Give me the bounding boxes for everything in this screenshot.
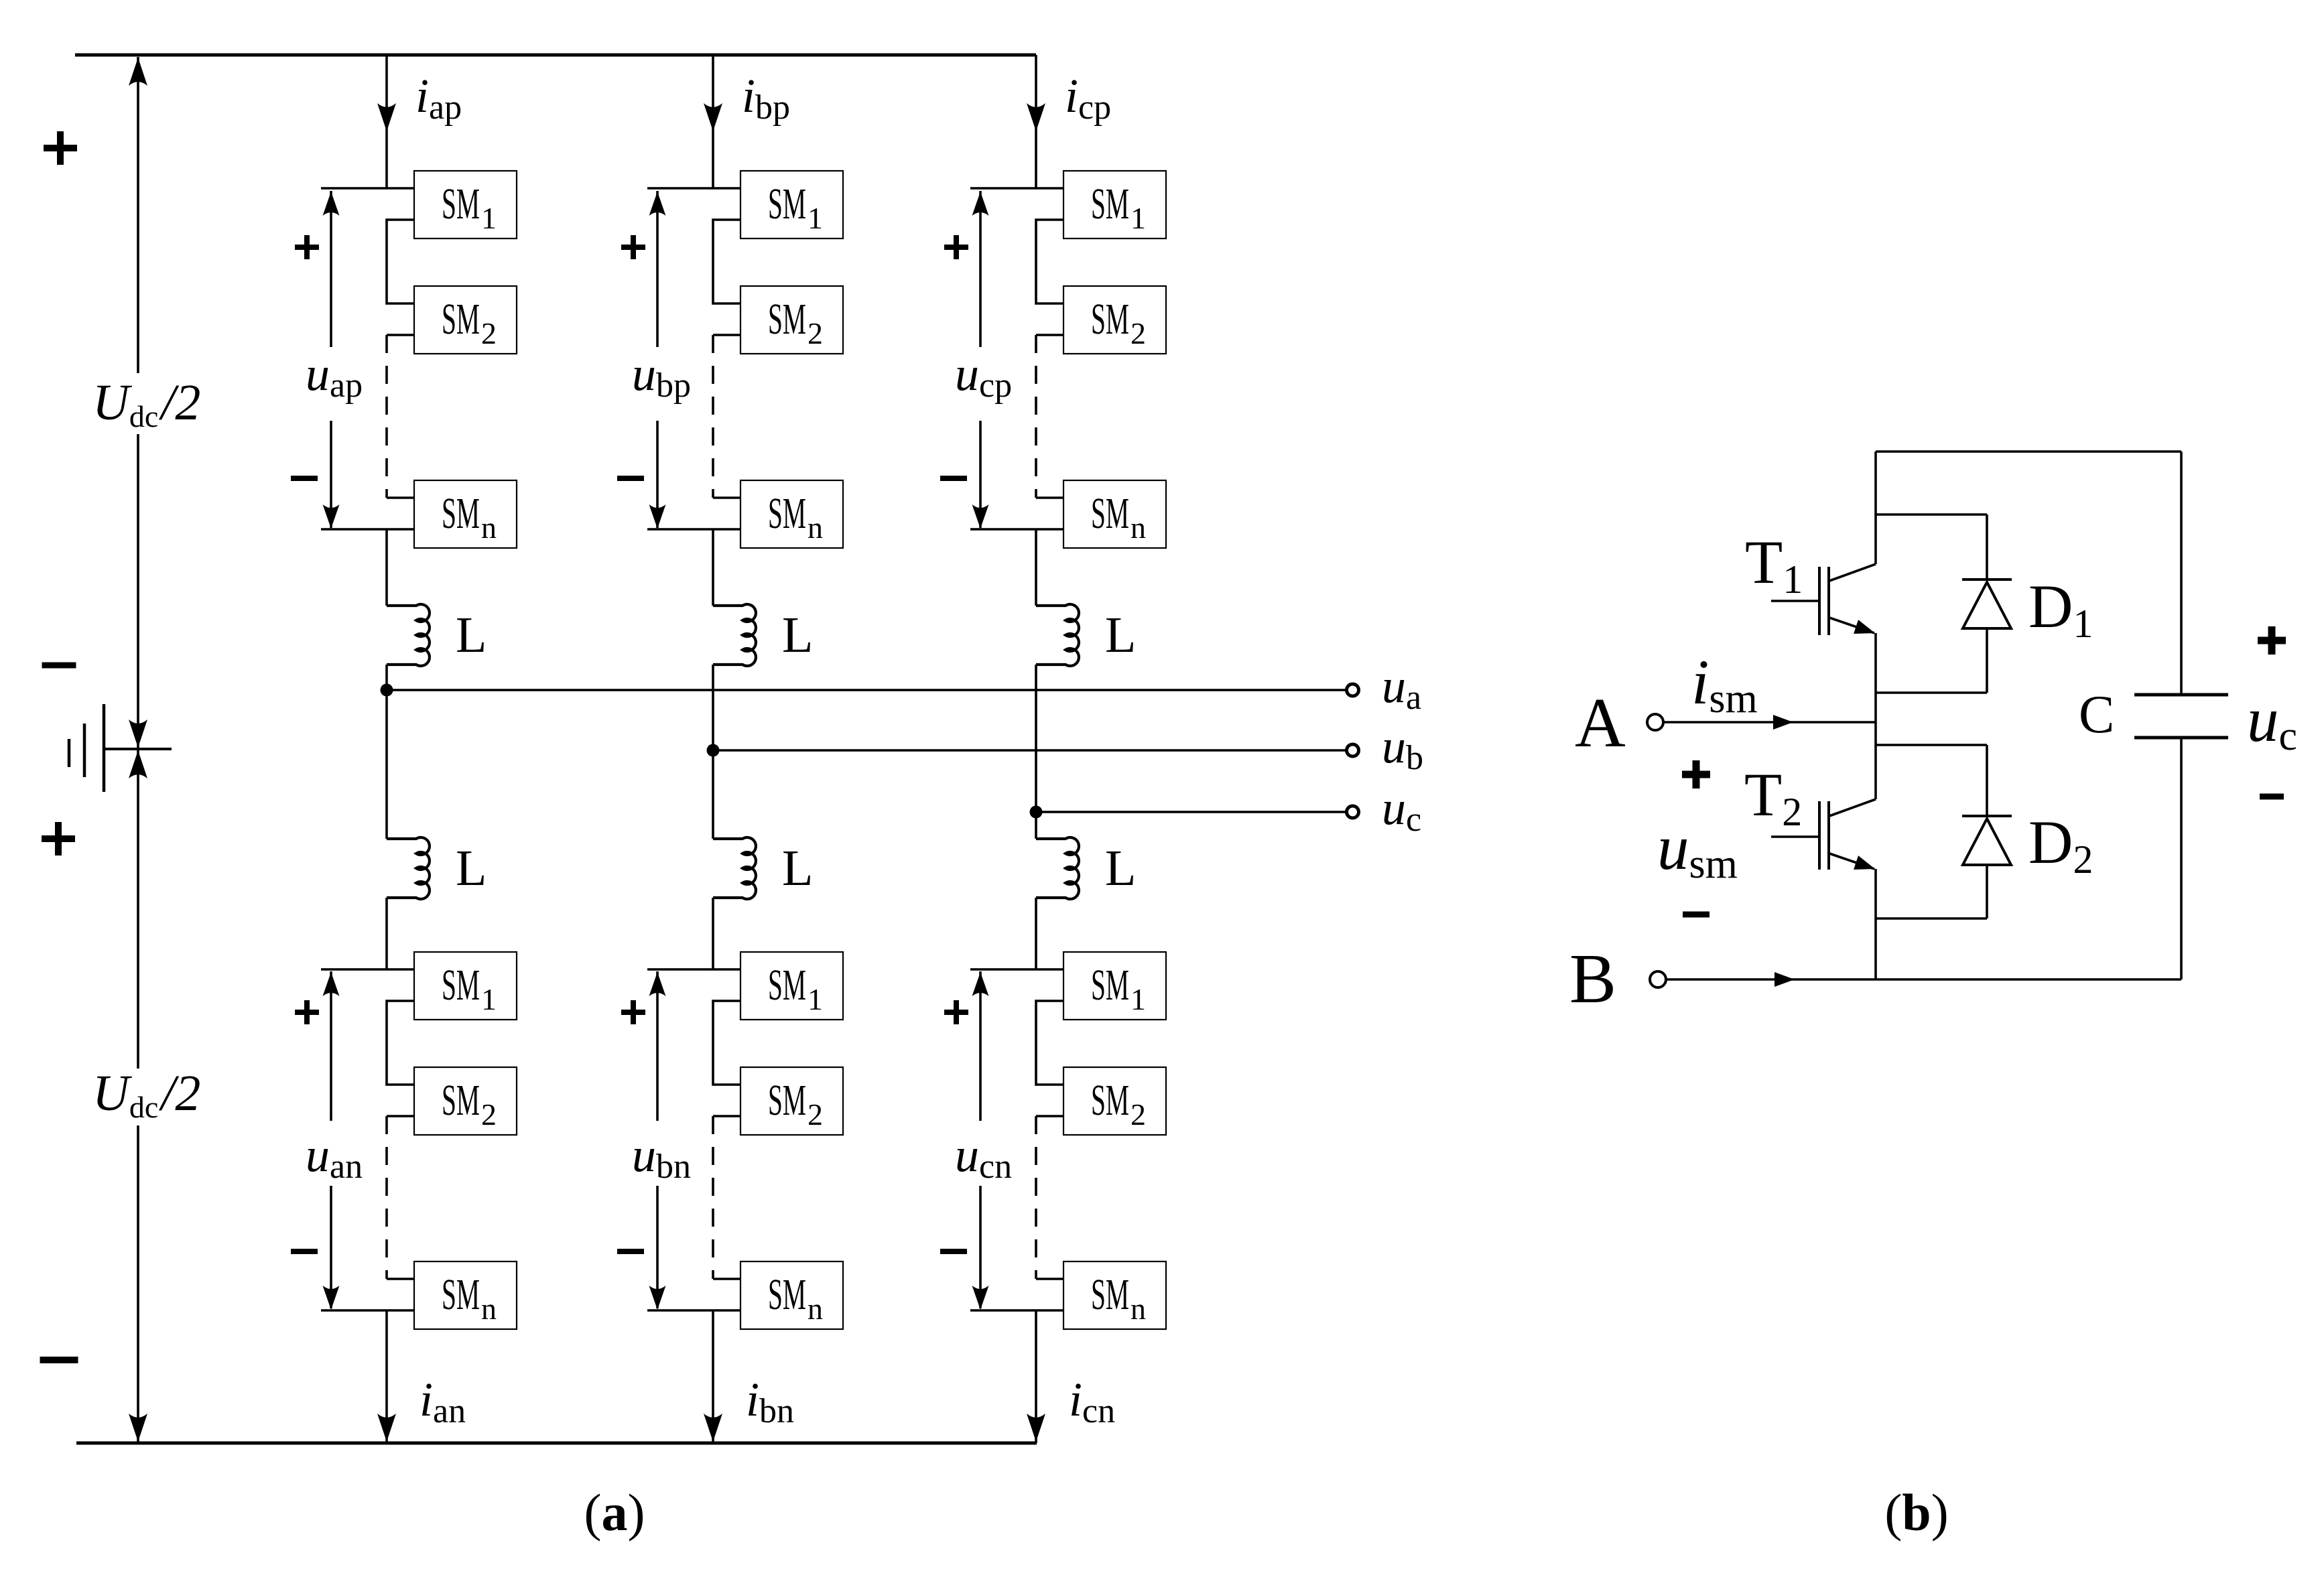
wire inductor to node b bbox=[712, 665, 714, 839]
svg-text:1: 1 bbox=[808, 982, 823, 1016]
upper arm inductor L b bbox=[713, 604, 756, 666]
wire SM1-SM2 a bbox=[387, 220, 414, 303]
svg-text:SM: SM bbox=[1091, 489, 1129, 538]
arm voltage arrow u_ap bbox=[330, 191, 332, 347]
svg-text:1: 1 bbox=[1131, 982, 1146, 1016]
arm voltage arrow u_an bbox=[330, 971, 332, 1121]
arm current arrow i_bp bbox=[704, 103, 722, 131]
upper arm terminal line top b bbox=[647, 187, 740, 190]
svg-text:2: 2 bbox=[1131, 316, 1146, 350]
arm current arrow i_cp bbox=[1027, 103, 1045, 131]
dashed wire upper arm c bbox=[1035, 335, 1037, 498]
wire SM2-dashed lower b bbox=[713, 1115, 740, 1117]
D1 bottom branch bbox=[1876, 691, 1987, 694]
svg-text:SM: SM bbox=[442, 489, 480, 538]
output terminal circle u_c bbox=[1347, 806, 1359, 818]
diode D2 bbox=[1986, 745, 1988, 816]
wire A to midpoint bbox=[1664, 721, 1876, 724]
wire SM1-SM2 lower c bbox=[1036, 1001, 1063, 1085]
right rail upper bbox=[2180, 452, 2183, 695]
arm voltage arrow u_cn bbox=[979, 971, 982, 1121]
wire inductor to SM1 lower a bbox=[385, 898, 388, 969]
bottom DC bus bbox=[76, 1442, 1037, 1445]
wire inductor to SM1 lower b bbox=[712, 898, 714, 969]
svg-text:2: 2 bbox=[1131, 1097, 1146, 1132]
wire dashed-SMn lower b bbox=[713, 1278, 740, 1280]
submodule detail: top wire bbox=[1876, 450, 2181, 453]
wire inductor to node a bbox=[385, 665, 388, 839]
phase b upper arm wire bbox=[712, 55, 714, 188]
left rail upper bbox=[1874, 452, 1877, 564]
svg-text:2: 2 bbox=[808, 1097, 823, 1132]
dashed wire upper arm a bbox=[385, 335, 388, 498]
right rail lower bbox=[2180, 738, 2183, 979]
T1 collector branch bbox=[1876, 513, 1987, 516]
wire inductor to node c bbox=[1035, 665, 1037, 839]
svg-text:n: n bbox=[808, 1292, 823, 1326]
submodule SMn upper c bbox=[1063, 480, 1166, 548]
minus of u_cn bbox=[940, 1249, 967, 1254]
submodule SM1 upper a bbox=[414, 171, 517, 238]
submodule SM2 upper b bbox=[740, 286, 843, 354]
submodule SM1 upper c bbox=[1063, 171, 1166, 238]
wire SMn to upper inductor a bbox=[385, 529, 388, 606]
wire SM2-dashed c bbox=[1036, 334, 1063, 336]
igbt T2 bbox=[1829, 799, 1876, 816]
plus of u_bn bbox=[621, 1010, 645, 1015]
submodule SM2 lower c bbox=[1063, 1067, 1166, 1135]
dashed wire lower arm c bbox=[1035, 1116, 1037, 1279]
wire SM2-dashed a bbox=[387, 334, 414, 336]
plus of u_c bbox=[2258, 637, 2286, 644]
wire dashed-SMn b bbox=[713, 496, 740, 499]
svg-text:SM: SM bbox=[1091, 961, 1129, 1010]
wire SMn to bottom bus b bbox=[712, 1310, 714, 1443]
svg-text:1: 1 bbox=[1131, 201, 1146, 235]
svg-text:L: L bbox=[456, 607, 487, 663]
igbt T1 bbox=[1829, 564, 1876, 581]
wire dashed-SMn c bbox=[1036, 496, 1063, 499]
plus of u_cn bbox=[944, 1010, 968, 1015]
dashed wire upper arm b bbox=[712, 335, 714, 498]
svg-text:L: L bbox=[782, 840, 813, 896]
svg-text:SM: SM bbox=[442, 1076, 480, 1125]
svg-text:SM: SM bbox=[442, 1270, 480, 1319]
lower arm terminal line top a bbox=[321, 968, 414, 971]
lower arm terminal line top b bbox=[647, 968, 740, 971]
minus of u_bn bbox=[617, 1249, 644, 1254]
wire SMn to bottom bus a bbox=[385, 1310, 388, 1443]
plus sign upper left bbox=[44, 145, 77, 151]
submodule SMn upper b bbox=[740, 480, 843, 548]
submodule SMn lower a bbox=[414, 1261, 517, 1329]
output terminal circle u_b bbox=[1347, 744, 1359, 756]
upper arm terminal line bottom b bbox=[647, 528, 740, 531]
upper arm terminal line bottom a bbox=[321, 528, 414, 531]
svg-text:2: 2 bbox=[808, 316, 823, 350]
lower arm inductor L c bbox=[1036, 837, 1079, 899]
upper arm inductor L a bbox=[387, 604, 430, 666]
svg-text:SM: SM bbox=[768, 295, 806, 344]
rail T1 emitter to T2 collector bbox=[1874, 633, 1877, 799]
svg-text:C: C bbox=[2079, 685, 2114, 744]
wire SM2-dashed lower a bbox=[387, 1115, 414, 1117]
arm current arrow i_bn bbox=[704, 1414, 722, 1442]
phase c upper arm wire bbox=[1035, 55, 1037, 188]
arm current arrow i_cn bbox=[1027, 1414, 1045, 1442]
svg-text:n: n bbox=[1131, 510, 1146, 545]
upper arm terminal line bottom c bbox=[970, 528, 1063, 531]
submodule SM1 lower c bbox=[1063, 952, 1166, 1020]
submodule SM1 lower b bbox=[740, 952, 843, 1020]
upper arm terminal line top c bbox=[970, 187, 1063, 190]
svg-text:1: 1 bbox=[481, 982, 497, 1016]
svg-text:SM: SM bbox=[768, 489, 806, 538]
wire SMn to bottom bus c bbox=[1035, 1310, 1037, 1443]
output line u_c bbox=[1036, 811, 1346, 813]
submodule SM2 upper a bbox=[414, 286, 517, 354]
minus sign bottom left bbox=[40, 1357, 78, 1363]
wire SM1-SM2 lower b bbox=[713, 1001, 740, 1085]
arm current arrow i_ap bbox=[377, 103, 396, 131]
wire SM2-dashed b bbox=[713, 334, 740, 336]
capacitor C bbox=[2134, 693, 2228, 697]
svg-text:SM: SM bbox=[1091, 295, 1129, 344]
svg-text:A: A bbox=[1575, 683, 1626, 762]
plus of u_bp bbox=[621, 245, 645, 250]
svg-text:n: n bbox=[481, 510, 497, 545]
svg-text:SM: SM bbox=[1091, 1270, 1129, 1319]
submodule SM2 upper c bbox=[1063, 286, 1166, 354]
Udc/2 measurement arrow lower bbox=[137, 750, 139, 1069]
top DC bus bbox=[75, 54, 1036, 57]
arm voltage arrow u_bn bbox=[656, 971, 659, 1121]
ground at DC midpoint bbox=[104, 748, 172, 750]
wire SMn to upper inductor b bbox=[712, 529, 714, 606]
minus of u_sm bbox=[1683, 912, 1709, 918]
phase a upper arm wire bbox=[385, 55, 388, 188]
output line u_a bbox=[387, 689, 1346, 691]
lower arm terminal line bottom c bbox=[970, 1309, 1063, 1312]
node a bbox=[381, 684, 393, 697]
terminal B circle bbox=[1650, 971, 1666, 987]
submodule SM1 upper b bbox=[740, 171, 843, 238]
arm current arrow i_an bbox=[377, 1414, 396, 1442]
wire SM1-SM2 c bbox=[1036, 220, 1063, 303]
submodule SMn lower b bbox=[740, 1261, 843, 1329]
svg-text:SM: SM bbox=[768, 961, 806, 1010]
svg-text:L: L bbox=[1105, 607, 1136, 663]
plus sign mid left lower bbox=[42, 835, 75, 842]
dashed wire lower arm b bbox=[712, 1116, 714, 1279]
svg-text:B: B bbox=[1569, 939, 1616, 1018]
output terminal circle u_a bbox=[1347, 684, 1359, 696]
svg-text:L: L bbox=[1105, 840, 1136, 896]
arm voltage arrow u_bp bbox=[656, 191, 659, 347]
wire SM2-dashed lower c bbox=[1036, 1115, 1063, 1117]
svg-text:SM: SM bbox=[768, 1076, 806, 1125]
svg-text:(b): (b) bbox=[1884, 1483, 1948, 1542]
minus of u_ap bbox=[291, 476, 318, 481]
node c bbox=[1030, 806, 1043, 819]
wire dashed-SMn a bbox=[387, 496, 414, 499]
svg-text:SM: SM bbox=[1091, 1076, 1129, 1125]
upper arm terminal line top a bbox=[321, 187, 414, 190]
D2 bottom branch bbox=[1876, 917, 1987, 920]
lower arm terminal line top c bbox=[970, 968, 1063, 971]
minus of u_an bbox=[291, 1249, 318, 1254]
submodule SM2 lower b bbox=[740, 1067, 843, 1135]
rail T2 emitter to bottom bbox=[1874, 869, 1877, 979]
svg-text:SM: SM bbox=[442, 961, 480, 1010]
bottom wire B to capacitor bbox=[1667, 978, 2181, 981]
plus of u_cp bbox=[944, 245, 968, 250]
svg-text:SM: SM bbox=[442, 295, 480, 344]
svg-text:2: 2 bbox=[481, 316, 497, 350]
minus sign mid left upper bbox=[42, 663, 76, 669]
svg-text:2: 2 bbox=[481, 1097, 497, 1132]
svg-text:1: 1 bbox=[808, 201, 823, 235]
plus of u_an bbox=[295, 1010, 319, 1015]
wire SM1-SM2 lower a bbox=[387, 1001, 414, 1085]
svg-text:L: L bbox=[456, 840, 487, 896]
output line u_b bbox=[713, 749, 1346, 752]
lower arm inductor L b bbox=[713, 837, 756, 899]
svg-text:L: L bbox=[782, 607, 813, 663]
wire SMn to upper inductor c bbox=[1035, 529, 1037, 606]
T2 collector branch bbox=[1876, 744, 1987, 746]
wire inductor to SM1 lower c bbox=[1035, 898, 1037, 969]
svg-text:n: n bbox=[481, 1292, 497, 1326]
wire dashed-SMn lower a bbox=[387, 1278, 414, 1280]
wire SM1-SM2 b bbox=[713, 220, 740, 303]
dashed wire lower arm a bbox=[385, 1116, 388, 1279]
upper arm inductor L c bbox=[1036, 604, 1079, 666]
Udc/2 measurement arrow upper bbox=[137, 57, 139, 373]
svg-text:SM: SM bbox=[768, 180, 806, 228]
arm voltage arrow u_cp bbox=[979, 191, 982, 347]
diode D1 bbox=[1986, 515, 1988, 579]
lower arm terminal line bottom b bbox=[647, 1309, 740, 1312]
terminal A circle bbox=[1647, 714, 1663, 730]
svg-text:(a): (a) bbox=[584, 1483, 645, 1542]
wire dashed-SMn lower c bbox=[1036, 1278, 1063, 1280]
lower arm terminal line bottom a bbox=[321, 1309, 414, 1312]
svg-text:n: n bbox=[1131, 1292, 1146, 1326]
svg-text:1: 1 bbox=[481, 201, 497, 235]
submodule SMn lower c bbox=[1063, 1261, 1166, 1329]
minus of u_cp bbox=[940, 476, 967, 481]
node b bbox=[707, 744, 720, 757]
submodule SM1 lower a bbox=[414, 952, 517, 1020]
minus of u_bp bbox=[617, 476, 644, 481]
plus of u_ap bbox=[295, 245, 319, 250]
lower arm inductor L a bbox=[387, 837, 430, 899]
submodule SM2 lower a bbox=[414, 1067, 517, 1135]
svg-text:SM: SM bbox=[768, 1270, 806, 1319]
svg-text:SM: SM bbox=[442, 180, 480, 228]
svg-text:n: n bbox=[808, 510, 823, 545]
submodule SMn upper a bbox=[414, 480, 517, 548]
svg-text:SM: SM bbox=[1091, 180, 1129, 228]
plus of u_sm bbox=[1682, 771, 1710, 778]
minus of u_c bbox=[2260, 794, 2284, 800]
